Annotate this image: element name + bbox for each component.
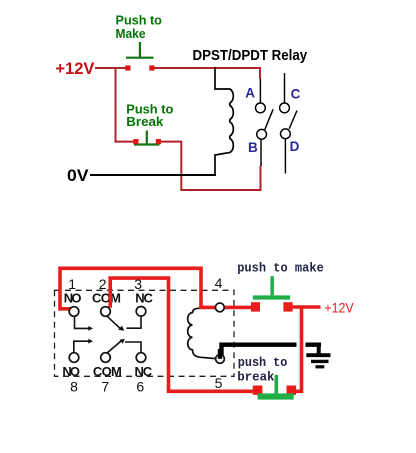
svg-text:NO: NO	[64, 291, 82, 306]
wire +12V drop (red)	[295, 307, 302, 391]
wire stub into pin5	[218, 349, 222, 359]
pin 8 terminal	[69, 353, 79, 363]
wire +12V rail to S1 left contact	[95, 67, 126, 69]
wire junction drop to push-to-break	[115, 67, 117, 143]
push-button S2 push-to-break (green actuator)	[134, 131, 160, 145]
switch arm pin8 (NO) with arrow	[74, 341, 90, 353]
contact S2 left	[133, 139, 138, 144]
label NO COM NC (bottom row)	[62, 364, 152, 379]
pin 3 terminal	[136, 307, 146, 317]
wire S2 right to contact B (down, right, up)	[161, 142, 261, 190]
contact S1 left	[125, 65, 130, 70]
push-button S3 push-to-make actuator (green)	[253, 276, 290, 299]
relay K1 coil	[215, 67, 233, 175]
lead pin6 (NC)	[125, 342, 141, 353]
svg-text:8: 8	[70, 378, 78, 394]
svg-text:D: D	[290, 139, 300, 154]
contact C terminal	[280, 103, 290, 113]
svg-text:push to: push to	[238, 355, 288, 370]
svg-text:NC: NC	[135, 291, 153, 306]
label: push to break	[237, 355, 287, 384]
wire S1 right contact to relay coil / contact A	[154, 67, 261, 69]
wire ground link (right of red)	[306, 343, 322, 347]
contact S1 right	[149, 65, 154, 70]
svg-text:NC: NC	[134, 364, 152, 379]
contact S4 push-to-break right	[287, 386, 297, 395]
contact S3 push-to-make left	[251, 302, 260, 311]
svg-text:5: 5	[215, 375, 223, 391]
wire junction to S2 left contact	[116, 141, 135, 143]
contact S4 push-to-break left	[253, 386, 263, 395]
svg-text:COM: COM	[93, 364, 122, 379]
svg-text:NO: NO	[62, 364, 80, 379]
wire lead above contact C	[284, 73, 286, 103]
contact D terminal	[281, 129, 291, 139]
svg-text:Make: Make	[116, 27, 146, 41]
svg-text:2: 2	[99, 276, 107, 292]
wire red corner down to contact A	[259, 67, 261, 79]
svg-text:7: 7	[101, 378, 109, 394]
svg-text:DPST/DPDT Relay: DPST/DPDT Relay	[193, 47, 308, 64]
pin 5 terminal	[216, 355, 225, 364]
svg-text:Push to: Push to	[126, 102, 173, 116]
switch arm pin1 (NO) with arrow	[75, 316, 90, 328]
pin 4 terminal	[215, 303, 224, 312]
ground symbol	[306, 345, 330, 367]
label: Push to Break (text)	[126, 102, 173, 129]
lead pin3 (NC)	[127, 316, 142, 328]
switch arm pin2 (COM) with arrow	[107, 316, 121, 329]
push-button S1 push-to-make (green actuator)	[126, 42, 154, 58]
contact A terminal	[256, 103, 266, 113]
contact B terminal	[257, 129, 267, 139]
relay outline (dashed case)	[55, 290, 235, 376]
pin 2 terminal	[101, 307, 111, 317]
svg-text:A: A	[245, 85, 255, 100]
svg-text:1: 1	[68, 276, 76, 292]
wire coil to ground (thick black)	[222, 345, 297, 359]
label: Push to Make (text)	[116, 14, 163, 42]
pin 6 terminal	[136, 353, 146, 363]
svg-text:B: B	[248, 140, 258, 155]
label pin numbers	[68, 275, 222, 394]
contact S2 right	[156, 139, 161, 144]
switch arm C-D	[289, 111, 297, 129]
svg-text:6: 6	[136, 378, 144, 394]
svg-text:COM: COM	[92, 291, 121, 306]
switch arm pin7 (COM) with arrow	[107, 341, 122, 354]
svg-text:0V: 0V	[67, 166, 89, 185]
switch arm A-B	[265, 109, 273, 129]
pin 7 terminal	[101, 353, 111, 363]
svg-text:3: 3	[134, 276, 142, 292]
wire pin1 feed (red): from pin1 up, right, down to pin4 rail, to S3 left contact	[60, 268, 252, 309]
wire lead to contact A (black)	[259, 79, 261, 103]
svg-text:push to make: push to make	[237, 261, 324, 276]
svg-text:break: break	[237, 369, 274, 384]
wire lead below contact D	[284, 139, 286, 174]
relay K2 coil	[188, 308, 216, 359]
contact S3 push-to-make right	[283, 302, 292, 311]
svg-text:Push to: Push to	[116, 14, 163, 28]
pin 1 terminal	[69, 307, 79, 317]
wire pin2 feed (red): from pin2 up, right, down, along bottom to S4 left contact	[110, 278, 253, 391]
wire lead from contact B (black)	[260, 139, 262, 166]
label NO COM NC (top row)	[64, 291, 154, 306]
wire +12V rail (red): right contact S3 to +12V, drop to S4 right contact	[292, 305, 321, 309]
svg-text:C: C	[291, 86, 301, 101]
svg-text:+12V: +12V	[324, 300, 353, 315]
svg-text:Break: Break	[126, 115, 163, 129]
svg-text:4: 4	[215, 275, 223, 291]
wire 0V rail	[90, 174, 216, 176]
push-button S4 push-to-break actuator (green)	[258, 375, 294, 400]
svg-text:+12V: +12V	[55, 59, 95, 78]
